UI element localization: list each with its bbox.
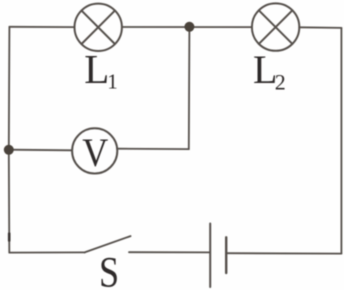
wire: voltmeter branch right: [117, 27, 189, 149]
voltmeter V: [72, 128, 117, 173]
scan mark on left wire: [8, 234, 11, 241]
wire: left vertical: [8, 27, 11, 253]
wire: bottom right segment: [227, 252, 342, 254]
wire: top right segment: [299, 26, 341, 29]
svg-text:L: L: [253, 47, 277, 92]
node: top junction dot: [184, 22, 194, 32]
battery short plate: [225, 237, 227, 273]
svg-text:2: 2: [275, 70, 286, 95]
lamp L1: [75, 4, 122, 51]
lamp L2: [252, 3, 299, 50]
battery long plate: [209, 224, 211, 288]
svg-text:V: V: [82, 132, 108, 176]
wire: voltmeter branch left: [9, 149, 72, 152]
wire: bottom middle segment: [129, 251, 209, 253]
node: left junction dot: [4, 145, 14, 155]
svg-text:1: 1: [107, 70, 118, 94]
wire: right vertical: [340, 28, 342, 254]
wire: top middle segment: [122, 26, 252, 28]
svg-text:S: S: [99, 248, 119, 290]
switch S blade: [85, 236, 131, 252]
wire: bottom left segment: [9, 251, 85, 253]
svg-text:L: L: [84, 46, 109, 92]
wire: top left segment: [9, 26, 74, 28]
